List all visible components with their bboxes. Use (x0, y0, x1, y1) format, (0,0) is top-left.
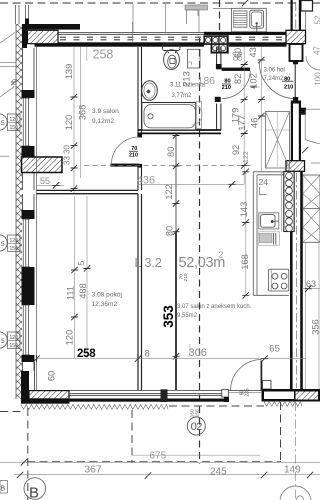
wall top-left corner block (19, 24, 27, 48)
svg-text:52: 52 (314, 15, 320, 24)
wire hol dim line 1 (243, 47, 245, 184)
node window label 3 (0, 332, 20, 349)
svg-text:235: 235 (244, 388, 250, 397)
node balcony door leaf (260, 361, 262, 391)
svg-text:3.06 hol: 3.06 hol (264, 68, 285, 74)
node salon door swing arc (111, 137, 139, 165)
node vent shaft column kitchen (281, 172, 294, 232)
wall window2 bottom block (22, 355, 35, 362)
svg-text:80: 80 (166, 147, 176, 157)
node window1 glazing (22, 219, 31, 267)
wall window0 top block (22, 90, 35, 98)
node survey marker left (11, 79, 18, 85)
svg-text:245: 245 (210, 466, 227, 477)
node bottom-left hatch block (29, 391, 69, 399)
node roof outline dashed (0, 2, 320, 4)
svg-text:150: 150 (10, 125, 19, 131)
node neighbor counter top (232, 8, 267, 32)
node axis bubble bottom right (280, 486, 311, 500)
node entrance door leaf (290, 44, 303, 61)
node kitchen counter outline (253, 172, 289, 295)
svg-text:3.07 salon z aneksem kuch.: 3.07 salon z aneksem kuch. (177, 304, 252, 310)
svg-text:122: 122 (243, 151, 250, 163)
node entrance door swing arc (259, 62, 295, 99)
wall bottom right black bar with hatch (262, 389, 320, 402)
node neighbor grill striped (234, 11, 247, 27)
node top-left hatch block (28, 30, 59, 43)
svg-text:5: 5 (1, 241, 5, 248)
node salon door jamb lower (137, 164, 142, 168)
wire central dim line x176 (175, 133, 177, 390)
node window label 2 (0, 235, 20, 252)
svg-text:3.9 salon: 3.9 salon (92, 108, 119, 115)
node balcony dashed outline (0, 402, 281, 500)
svg-text:3,77m2: 3,77m2 (172, 93, 193, 99)
svg-text:210: 210 (129, 152, 138, 158)
node neighbor wardrobe X right (303, 175, 320, 242)
svg-text:43: 43 (248, 47, 258, 57)
wire interior dim line y358 (37, 358, 307, 360)
svg-text:5: 5 (1, 120, 5, 127)
svg-text:82: 82 (233, 74, 243, 84)
svg-text:168: 168 (240, 254, 250, 270)
svg-text:156: 156 (194, 409, 200, 417)
svg-text:306: 306 (189, 347, 207, 359)
node hatch block right mid (286, 161, 305, 172)
node window ref circle 02 (187, 417, 205, 435)
node salon door jamb upper (137, 134, 142, 138)
wall V2 between door and partition (137, 168, 139, 190)
svg-text:150: 150 (10, 246, 19, 252)
wall right double wall lower (290, 171, 293, 389)
wall window0 bottom block (22, 146, 35, 157)
wire neighbor extension lines top (133, 4, 199, 32)
node window label 1 (0, 114, 20, 131)
svg-text:24: 24 (259, 177, 269, 187)
svg-text:02: 02 (191, 421, 203, 433)
wire upper dimension line (0, 461, 320, 463)
wall right wall segment (291, 103, 293, 161)
svg-text:80: 80 (224, 79, 230, 85)
node kitchen dishwasher grey (259, 232, 280, 245)
wall bottom-left pier black (21, 371, 29, 399)
wire 436 dim line (138, 183, 245, 185)
svg-text:100: 100 (314, 72, 320, 86)
svg-text:B: B (29, 485, 39, 500)
wire salon dim line x80.5 (80, 47, 82, 178)
node window0 glazing (22, 98, 31, 146)
node neighbor door arc top right (306, 56, 320, 70)
svg-text:177: 177 (237, 115, 247, 131)
svg-text:150: 150 (10, 343, 19, 349)
node kitchen stove (268, 269, 288, 291)
node vent shaft 2x2 by bathroom (204, 35, 229, 53)
svg-text:367: 367 (84, 464, 102, 476)
wire left margin short line (0, 155, 9, 157)
wall left outer face line (15, 24, 17, 399)
svg-text:356: 356 (310, 319, 320, 335)
svg-text:5: 5 (1, 338, 5, 345)
svg-text:8: 8 (145, 349, 150, 360)
svg-text:210: 210 (284, 85, 293, 91)
wall top neighbor leaf black bar (204, 32, 290, 35)
node axis line bottom right (295, 402, 297, 500)
svg-text:368: 368 (77, 105, 87, 121)
svg-text:L 3.2: L 3.2 (135, 256, 162, 270)
svg-text:60: 60 (46, 371, 56, 381)
wire neighbor wall lines top-left (16, 5, 29, 24)
svg-text:122: 122 (164, 184, 174, 200)
svg-text:120: 120 (64, 115, 74, 131)
svg-text:3.08 pokój: 3.08 pokój (92, 291, 123, 298)
svg-text:12,36m2: 12,36m2 (92, 301, 118, 308)
svg-text:210: 210 (183, 273, 189, 281)
wall top exterior: outer face double line (52, 32, 306, 34)
node bathtub (142, 103, 196, 131)
wall bathroom south wall (138, 129, 221, 131)
node bottom window glazing lines (69, 391, 261, 396)
wire pokoj dim line x74.5 (74, 196, 76, 358)
svg-text:30: 30 (63, 145, 72, 154)
svg-text:92: 92 (231, 145, 241, 155)
wall window1 top block (22, 210, 35, 219)
node neighbor corridor door (305, 109, 320, 163)
wall bathroom east wall lower (216, 104, 218, 130)
wall right wall jamb below entrance (293, 97, 298, 102)
node left insulation crosshatch strip (17, 24, 23, 399)
node neighbor sink (250, 10, 264, 28)
wall right wall above entrance (291, 0, 293, 31)
svg-text:675: 675 (150, 451, 167, 462)
wire extension line x132.5 (132, 22, 134, 42)
wall pier between windows black (22, 267, 35, 305)
node hol small fixtures (233, 52, 242, 55)
svg-text:210: 210 (222, 85, 231, 91)
wire salon dim line x74 (73, 47, 75, 194)
wall top interior black bar left span (35, 42, 205, 46)
node left pier hatch T (22, 157, 63, 173)
svg-text:111: 111 (65, 286, 75, 300)
wire lower dimension line (14, 474, 320, 476)
node washer cabinet (188, 49, 201, 68)
svg-text:2: 2 (219, 250, 224, 260)
svg-text:63: 63 (306, 279, 316, 289)
node wardrobe hol (266, 112, 290, 169)
node bottom window jamb block (161, 389, 168, 402)
node axis bubble B (24, 478, 46, 500)
node neighbor jamb box top right (301, 1, 313, 12)
svg-text:47: 47 (313, 46, 320, 55)
node left edge label bottom (0, 481, 8, 494)
node bathroom door jamb lower (215, 97, 221, 102)
node bathroom door leaf open (222, 68, 250, 71)
wall left inner face line (36, 47, 38, 391)
svg-text:436: 436 (137, 175, 155, 187)
svg-text:120: 120 (10, 238, 19, 244)
wall V2 wall upper segment (137, 47, 139, 134)
wire kitchen dim line (245, 172, 247, 295)
wire corner leader line (0, 33, 15, 44)
node terrace rail lines left (0, 62, 21, 64)
node bottom insulation sawtooth right (264, 402, 302, 407)
wall top interior black bar right span (229, 42, 287, 46)
node balcony door swing arc (231, 360, 262, 391)
svg-text:120: 120 (10, 117, 19, 123)
wall top-left corner black bar (19, 24, 80, 30)
wall partition salon pokoj (37, 189, 139, 191)
wall bathroom east wall upper (216, 47, 218, 65)
wire neighbor room lines right (305, 242, 307, 389)
svg-text:139: 139 (64, 64, 74, 80)
svg-text:60: 60 (233, 48, 243, 58)
svg-text:143: 143 (239, 202, 249, 218)
svg-text:186: 186 (198, 75, 216, 87)
node top-right hatch block (286, 30, 306, 43)
svg-text:55: 55 (40, 176, 50, 186)
node cabinet beside bathtub (196, 101, 202, 128)
node bathroom door swing arc (222, 71, 251, 99)
node axis dashed top (219, 0, 221, 46)
node small wall nub right (301, 108, 306, 115)
node salon door leaf (111, 164, 140, 167)
svg-text:488: 488 (78, 283, 88, 299)
node neighbor door grey box top (185, 5, 208, 10)
svg-text:46: 46 (249, 118, 259, 128)
svg-text:7,24m2: 7,24m2 (264, 76, 285, 82)
node window2 glazing (22, 305, 31, 355)
node toilet (163, 43, 181, 70)
wire dashed horizontal aneks boundary (84, 165, 252, 167)
svg-text:9,55m2: 9,55m2 (177, 313, 198, 319)
wall left wall edge lines segment1 (23, 48, 35, 371)
svg-text:120: 120 (64, 330, 74, 346)
svg-text:9,12m2: 9,12m2 (92, 118, 114, 125)
svg-text:80: 80 (164, 226, 174, 236)
node washbasin (142, 81, 158, 101)
node bottom insulation sawtooth left (21, 405, 168, 410)
node section line dashed vertical (199, 38, 201, 464)
node bathroom door jamb upper (216, 64, 222, 69)
svg-text:65: 65 (269, 344, 280, 355)
svg-text:33: 33 (63, 156, 72, 165)
wire small leader arrow hol (251, 86, 260, 89)
svg-text:258: 258 (77, 348, 96, 360)
svg-text:120: 120 (10, 335, 19, 341)
svg-text:5: 5 (77, 260, 86, 265)
wall bottom south wall black bar (21, 399, 70, 404)
wall V2 lower segment along pokoj (137, 194, 139, 390)
svg-text:149: 149 (284, 465, 301, 476)
svg-text:353: 353 (161, 305, 176, 328)
wire hol dim line 2 (260, 47, 262, 172)
node kitchen sink (259, 213, 279, 229)
svg-text:B: B (1, 485, 6, 492)
node dim 675 line (132, 454, 260, 456)
node balcony door threshold (229, 392, 261, 394)
svg-text:258: 258 (93, 47, 114, 61)
wire pokoj dim line x87 (86, 196, 88, 358)
wire top wall insulation dashes (60, 36, 284, 38)
